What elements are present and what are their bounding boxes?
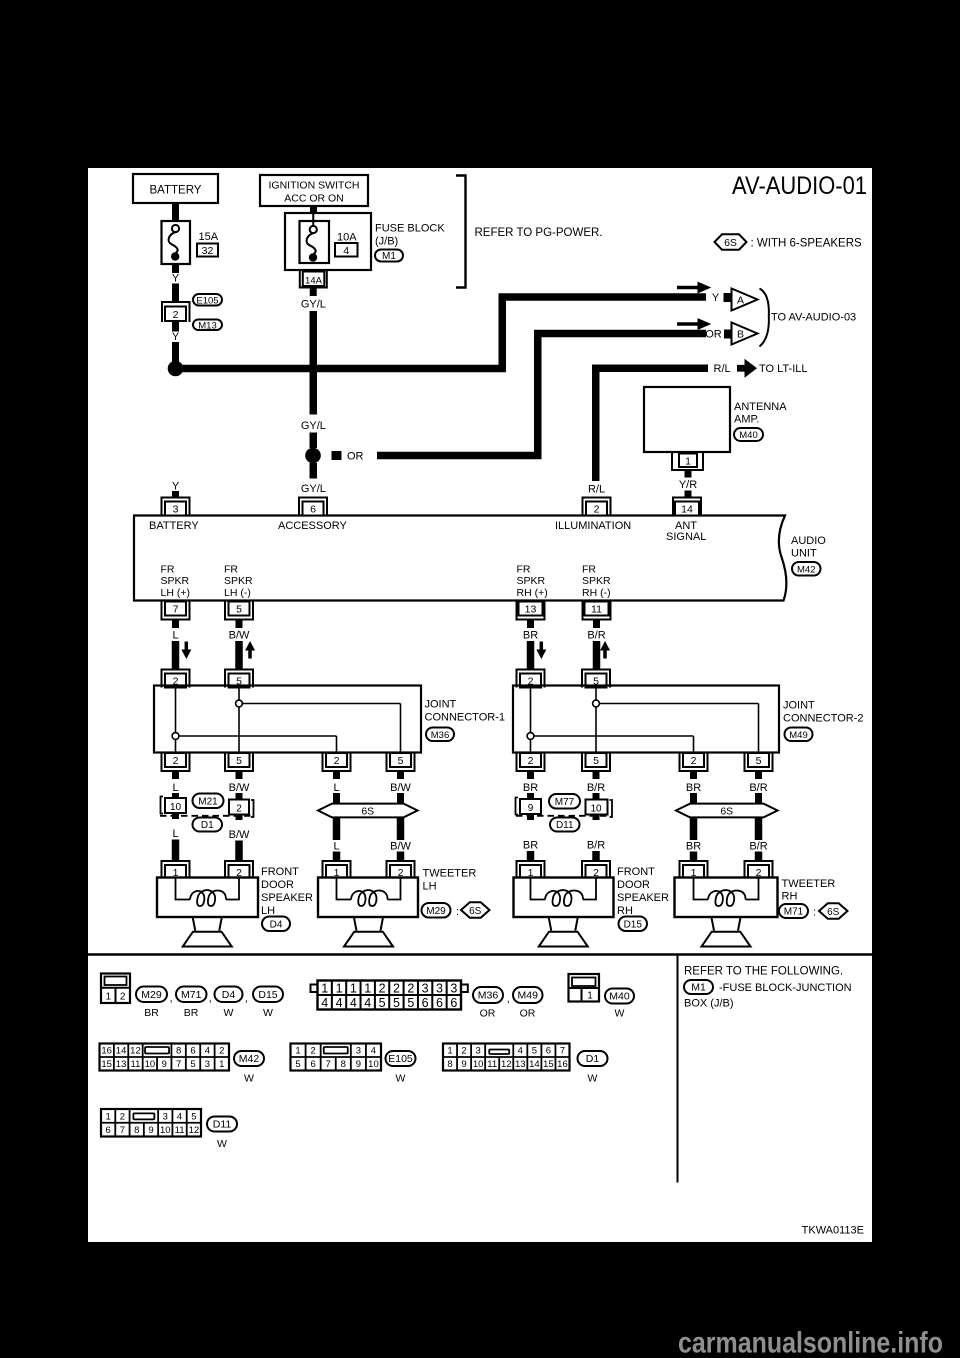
svg-text:4: 4 xyxy=(177,1111,182,1122)
svg-text:12: 12 xyxy=(189,1125,200,1136)
svg-text:5: 5 xyxy=(756,755,762,767)
svg-text:9: 9 xyxy=(148,1125,153,1136)
svg-text:RH (-): RH (-) xyxy=(582,587,611,599)
svg-text:W: W xyxy=(588,1073,598,1085)
svg-text:15A: 15A xyxy=(199,231,219,243)
svg-text:L: L xyxy=(333,782,339,794)
wire stub B/R xyxy=(755,771,762,779)
svg-text:: WITH 6-SPEAKERS: : WITH 6-SPEAKERS xyxy=(751,238,863,250)
wire Y stub to pin 3 xyxy=(172,491,179,498)
svg-text:6: 6 xyxy=(310,1059,315,1070)
svg-text:1: 1 xyxy=(295,1046,300,1057)
svg-text:9: 9 xyxy=(162,1059,167,1070)
svg-text:,: , xyxy=(507,993,510,1005)
svg-text:6: 6 xyxy=(546,1046,551,1057)
svg-text:AV-AUDIO-01: AV-AUDIO-01 xyxy=(732,172,867,200)
terminal triangle B to AV-AUDIO-03 xyxy=(732,323,758,345)
connector label M29 with 6S xyxy=(422,903,451,918)
wire B/W above 6S hexagon xyxy=(397,793,404,804)
svg-text:FR: FR xyxy=(224,564,238,576)
audio unit pin 3 xyxy=(162,498,190,516)
svg-text:L: L xyxy=(333,841,339,853)
wire L below 6S hexagon xyxy=(333,818,341,841)
svg-text:2: 2 xyxy=(236,804,242,815)
svg-text:5: 5 xyxy=(593,755,599,767)
svg-text:DOOR: DOOR xyxy=(617,879,650,891)
fuse 15A F32 xyxy=(162,221,191,264)
svg-text:BATTERY: BATTERY xyxy=(150,185,202,197)
svg-text:W: W xyxy=(263,1007,273,1019)
wire BR below 6S hexagon xyxy=(690,818,698,841)
svg-text:1: 1 xyxy=(350,982,357,996)
connector label M71 xyxy=(176,987,207,1003)
svg-text:Y: Y xyxy=(172,331,180,343)
connector label D15 xyxy=(619,917,648,932)
svg-text:W: W xyxy=(396,1073,406,1085)
svg-text:BR: BR xyxy=(686,782,701,794)
svg-text:1: 1 xyxy=(364,982,371,996)
svg-text:15: 15 xyxy=(101,1059,112,1070)
svg-text:,: , xyxy=(209,993,212,1005)
svg-text:(J/B): (J/B) xyxy=(375,236,398,248)
svg-text:BR: BR xyxy=(184,1007,199,1019)
wire Y to junction xyxy=(172,342,179,365)
wire stub into pin 10 xyxy=(593,793,600,800)
connector label D4 xyxy=(262,917,290,932)
svg-text:2: 2 xyxy=(691,755,697,767)
svg-text:12: 12 xyxy=(501,1059,512,1070)
wire L to tweeter pin xyxy=(333,852,341,863)
svg-text:10: 10 xyxy=(160,1125,171,1136)
node square B xyxy=(724,330,733,339)
svg-text:4: 4 xyxy=(364,996,371,1010)
svg-text:BOX (J/B): BOX (J/B) xyxy=(684,998,734,1010)
wire battery to fuse xyxy=(172,203,179,221)
wire GY/L down xyxy=(310,311,318,415)
wire fuse out xyxy=(172,264,179,273)
svg-text:B/R: B/R xyxy=(587,840,605,852)
connector label M36 xyxy=(426,728,454,742)
junction dot GY/L-OR xyxy=(305,448,321,464)
wire stub B/R xyxy=(593,771,600,779)
svg-text:16: 16 xyxy=(101,1046,112,1057)
svg-text:2: 2 xyxy=(594,504,600,516)
flow arrow down L xyxy=(181,642,191,660)
arrow to LT-ILL xyxy=(737,359,757,378)
wire below GY/L junction xyxy=(310,463,318,479)
audio unit pin 6 xyxy=(299,498,327,516)
svg-text:1: 1 xyxy=(447,1046,452,1057)
svg-text:D15: D15 xyxy=(624,919,643,930)
svg-text:FRONT: FRONT xyxy=(261,866,299,878)
wire B/W to speaker pin xyxy=(235,841,243,863)
svg-text:6: 6 xyxy=(310,504,316,516)
svg-text:IGNITION SWITCH: IGNITION SWITCH xyxy=(269,180,360,192)
connector label M1 xyxy=(375,250,403,262)
svg-text:ILLUMINATION: ILLUMINATION xyxy=(555,520,631,532)
joint connector-1 internal wires xyxy=(175,687,177,753)
wire stub below pin L xyxy=(172,620,179,629)
svg-text:REFER TO THE FOLLOWING.: REFER TO THE FOLLOWING. xyxy=(684,966,843,978)
connector label M77 xyxy=(549,794,580,809)
svg-text:12: 12 xyxy=(130,1046,141,1057)
svg-text:2: 2 xyxy=(334,755,340,767)
arrow marker Y bus xyxy=(677,286,698,290)
connector label M71 with 6S xyxy=(779,904,808,918)
svg-text:BATTERY: BATTERY xyxy=(149,520,199,532)
svg-text:B/W: B/W xyxy=(229,829,250,841)
grouping bracket PG-POWER xyxy=(456,176,466,288)
svg-text:6: 6 xyxy=(450,996,457,1010)
svg-text:3: 3 xyxy=(163,1111,168,1122)
svg-text:10: 10 xyxy=(473,1059,484,1070)
wire stub into pin 2 xyxy=(236,793,243,800)
svg-text:M42: M42 xyxy=(797,564,815,575)
svg-text:,: , xyxy=(245,993,248,1005)
svg-text:GY/L: GY/L xyxy=(301,420,326,432)
terminal triangle A to AV-AUDIO-03 xyxy=(732,289,758,311)
joint connector-2 box M49 xyxy=(513,686,779,753)
battery box B1 xyxy=(133,174,218,203)
connector label D1 xyxy=(193,818,223,832)
wire B/R to speaker pin xyxy=(592,851,600,862)
svg-text:W: W xyxy=(615,1008,625,1020)
svg-text:B/W: B/W xyxy=(390,782,411,794)
wire stub L xyxy=(333,771,340,779)
svg-text:10: 10 xyxy=(590,804,602,815)
connector label M36 xyxy=(473,987,503,1003)
svg-text:10: 10 xyxy=(170,802,182,813)
wire below pin 10 xyxy=(593,815,600,821)
joint connector-2 bottom pin 2 xyxy=(680,753,708,771)
svg-text::: : xyxy=(813,907,816,919)
svg-text:B/R: B/R xyxy=(587,630,605,642)
svg-text:M71: M71 xyxy=(181,989,202,1001)
wire ignition to fuse block xyxy=(310,206,317,213)
tweeter RH coil xyxy=(694,878,709,900)
svg-text:RH (+): RH (+) xyxy=(517,587,548,599)
svg-text:carmanualsonline.info: carmanualsonline.info xyxy=(678,1327,943,1358)
svg-text:D4: D4 xyxy=(222,989,236,1001)
svg-text:14A: 14A xyxy=(305,276,323,287)
connector label D15 xyxy=(253,987,283,1003)
svg-text:14: 14 xyxy=(116,1046,127,1057)
svg-text:2: 2 xyxy=(310,1046,315,1057)
front door speaker LH coil xyxy=(176,878,191,900)
svg-text:REFER TO PG-POWER.: REFER TO PG-POWER. xyxy=(475,227,603,239)
svg-text:E105: E105 xyxy=(388,1053,413,1065)
tweeter connector pin 1 RH xyxy=(680,861,708,879)
svg-text:16: 16 xyxy=(557,1059,568,1070)
svg-text:11: 11 xyxy=(131,1059,141,1070)
svg-text:FRONT: FRONT xyxy=(617,866,655,878)
svg-text:2: 2 xyxy=(528,755,534,767)
svg-text:6S: 6S xyxy=(724,237,737,249)
svg-text:6: 6 xyxy=(436,996,443,1010)
connector label M49 xyxy=(785,728,813,742)
svg-text:OR: OR xyxy=(705,329,722,341)
front door speaker RH box xyxy=(514,878,614,918)
svg-text:CONNECTOR-2: CONNECTOR-2 xyxy=(783,713,863,725)
svg-text:Y: Y xyxy=(172,481,180,493)
svg-text:9: 9 xyxy=(461,1059,466,1070)
joint connector-2 top pin 2 xyxy=(517,670,545,688)
svg-text:SPKR: SPKR xyxy=(224,575,253,587)
svg-text:OR: OR xyxy=(480,1008,496,1020)
svg-text:3: 3 xyxy=(475,1046,480,1057)
svg-text:M49: M49 xyxy=(518,990,539,1002)
svg-text:2: 2 xyxy=(120,1111,125,1122)
svg-text:L: L xyxy=(172,782,178,794)
ignition switch box xyxy=(260,175,368,206)
svg-text:B/R: B/R xyxy=(749,841,767,853)
audio unit pin 2 xyxy=(583,498,611,516)
connector face icon 2-pin xyxy=(101,974,130,1004)
antenna amp box xyxy=(644,387,730,452)
svg-text:R/L: R/L xyxy=(588,484,605,496)
svg-text:B/R: B/R xyxy=(587,782,605,794)
svg-text:6: 6 xyxy=(105,1125,110,1136)
svg-text:RH: RH xyxy=(782,891,798,903)
wire Y/R to pin 14 xyxy=(685,491,692,497)
audio unit pin 5 xyxy=(225,602,253,620)
connector label M13 xyxy=(193,320,222,331)
connector face icon D1 pin grid xyxy=(443,1044,570,1071)
wire stub into pin 9 xyxy=(527,793,534,799)
svg-text:M77: M77 xyxy=(555,797,575,808)
svg-text:B/W: B/W xyxy=(229,630,250,642)
fuse 10A F4 xyxy=(300,221,330,263)
front door speaker LH cone xyxy=(193,918,222,931)
brace to AV-AUDIO-03 xyxy=(760,289,769,347)
antenna pin 1 xyxy=(672,452,703,470)
svg-text:SPEAKER: SPEAKER xyxy=(261,892,313,904)
svg-text:4: 4 xyxy=(518,1046,523,1057)
svg-text:UNIT: UNIT xyxy=(791,548,817,560)
svg-text:4: 4 xyxy=(350,996,357,1010)
svg-text:6: 6 xyxy=(422,996,429,1010)
tweeter RH box xyxy=(675,878,778,918)
connector label M1 xyxy=(684,980,713,994)
svg-text:LH: LH xyxy=(423,881,437,893)
connector label E105 xyxy=(193,294,222,306)
fuse number box 32 xyxy=(197,244,218,257)
wire below pin 10 xyxy=(172,813,179,819)
svg-text:W: W xyxy=(224,1007,234,1019)
vertical separator line xyxy=(677,956,679,1183)
svg-text:1: 1 xyxy=(587,991,593,1002)
wire B/W to tweeter pin xyxy=(397,852,405,863)
svg-text:13: 13 xyxy=(116,1059,127,1070)
svg-text:LH (+): LH (+) xyxy=(161,587,190,599)
svg-text:11: 11 xyxy=(591,604,602,616)
svg-text:TWEETER: TWEETER xyxy=(782,878,836,890)
joint connector-1 bottom pin 2 xyxy=(162,753,190,771)
wire B/R to joint connector xyxy=(593,641,601,669)
svg-text:Y: Y xyxy=(712,292,720,304)
svg-text:BR: BR xyxy=(144,1007,159,1019)
svg-text:AUDIO: AUDIO xyxy=(791,535,826,547)
svg-text:RH: RH xyxy=(617,905,633,917)
svg-text:6S: 6S xyxy=(361,805,374,817)
svg-text:11: 11 xyxy=(487,1059,497,1070)
joint connector-2 top pin 5 xyxy=(582,670,610,688)
svg-text:2: 2 xyxy=(393,982,400,996)
wire stub BR xyxy=(690,771,697,779)
svg-text:M42: M42 xyxy=(239,1053,260,1065)
speaker connector pin 1 LH door xyxy=(162,861,190,879)
svg-text:BR: BR xyxy=(686,841,701,853)
svg-text:5: 5 xyxy=(236,755,242,767)
connector face icon D11 pin grid xyxy=(101,1109,201,1137)
svg-text:6: 6 xyxy=(190,1046,195,1057)
svg-text:A: A xyxy=(737,294,744,306)
svg-text:D11: D11 xyxy=(213,1119,232,1131)
svg-text:10: 10 xyxy=(368,1059,379,1070)
tweeter RH cone xyxy=(712,918,741,931)
svg-text:5: 5 xyxy=(191,1111,196,1122)
svg-text:6S: 6S xyxy=(720,805,733,817)
svg-text:M13: M13 xyxy=(198,320,216,331)
svg-text:8: 8 xyxy=(176,1046,181,1057)
svg-text:5: 5 xyxy=(379,996,386,1010)
wire bus R/L to LT-ILL xyxy=(596,368,708,481)
svg-text:5: 5 xyxy=(190,1059,195,1070)
svg-text:11: 11 xyxy=(175,1125,185,1136)
svg-text:4: 4 xyxy=(336,996,343,1010)
wire L to speaker pin xyxy=(172,840,180,863)
svg-text:GY/L: GY/L xyxy=(301,483,326,495)
svg-text:L: L xyxy=(172,828,178,840)
front door speaker LH box xyxy=(157,878,258,918)
svg-text:1: 1 xyxy=(105,1111,110,1122)
svg-text:D1: D1 xyxy=(201,820,214,831)
svg-text:1: 1 xyxy=(219,1059,224,1070)
node joint connector-1 b xyxy=(236,700,243,707)
wire stub B/W xyxy=(236,771,243,779)
wire B/W to joint connector xyxy=(235,641,243,669)
svg-text:-FUSE BLOCK-JUNCTION: -FUSE BLOCK-JUNCTION xyxy=(719,982,852,994)
wire L to joint connector xyxy=(172,641,180,669)
svg-text:32: 32 xyxy=(202,245,214,257)
svg-text:M29: M29 xyxy=(141,989,162,1001)
node joint connector-2 a xyxy=(527,733,534,740)
tweeter connector pin 2 RH xyxy=(745,861,773,879)
svg-text:3: 3 xyxy=(422,982,429,996)
svg-text:DOOR: DOOR xyxy=(261,879,294,891)
svg-text:2: 2 xyxy=(173,755,179,767)
inline connector pin 9 xyxy=(520,799,541,814)
svg-text:1: 1 xyxy=(336,982,343,996)
svg-text:10A: 10A xyxy=(337,232,357,244)
connector label M42 xyxy=(792,562,821,576)
joint connector-1 bottom pin 5 xyxy=(387,753,415,771)
svg-text:1: 1 xyxy=(106,992,112,1003)
junction dot battery bus xyxy=(168,361,184,377)
svg-text:D11: D11 xyxy=(556,820,574,831)
wire B/W below 6S hexagon xyxy=(397,818,405,841)
svg-text:ACC OR ON: ACC OR ON xyxy=(284,193,344,205)
svg-text:CONNECTOR-1: CONNECTOR-1 xyxy=(425,712,505,724)
svg-text:R/L: R/L xyxy=(714,363,731,375)
audio unit body xyxy=(134,516,786,601)
wire stub below pin BR xyxy=(527,620,534,629)
svg-text::: : xyxy=(456,906,459,918)
svg-text:OR: OR xyxy=(347,451,364,463)
svg-text:5: 5 xyxy=(532,1046,537,1057)
svg-text:9: 9 xyxy=(356,1059,361,1070)
connector label D4 xyxy=(215,987,243,1003)
svg-text:3: 3 xyxy=(436,982,443,996)
front door speaker RH cone xyxy=(549,918,578,931)
svg-text:M40: M40 xyxy=(609,991,630,1003)
svg-text:M1: M1 xyxy=(382,251,396,262)
wire stub below pin B/W xyxy=(236,620,243,629)
wire stub L xyxy=(172,771,179,779)
svg-text:10: 10 xyxy=(145,1059,156,1070)
inline connector pin 10 xyxy=(165,798,186,813)
svg-text:14: 14 xyxy=(681,504,693,516)
flow arrow up B/R xyxy=(600,641,610,659)
connector label M49 xyxy=(513,987,543,1003)
svg-text:3: 3 xyxy=(450,982,457,996)
wire stub into pin 10 xyxy=(172,793,179,798)
svg-text:8: 8 xyxy=(341,1059,346,1070)
wire stub BR xyxy=(527,771,534,779)
svg-text:7: 7 xyxy=(120,1125,125,1136)
speaker connector pin 2 LH door xyxy=(225,861,253,879)
svg-text:B/W: B/W xyxy=(390,841,411,853)
svg-text:1: 1 xyxy=(685,456,691,468)
svg-text:M1: M1 xyxy=(691,982,706,994)
node joint connector-1 a xyxy=(172,733,179,740)
audio unit pin 13 xyxy=(517,602,545,620)
svg-text:2: 2 xyxy=(379,982,386,996)
tweeter connector pin 1 LH xyxy=(323,861,351,879)
svg-text:2: 2 xyxy=(173,309,179,321)
connector face icon M36/M49 20-pin xyxy=(311,985,318,993)
svg-text:8: 8 xyxy=(134,1125,139,1136)
audio unit pin 7 xyxy=(162,602,190,620)
svg-text:L: L xyxy=(172,630,178,642)
svg-text:FR: FR xyxy=(582,564,596,576)
svg-text:1: 1 xyxy=(321,982,328,996)
svg-text:5: 5 xyxy=(236,604,242,616)
svg-text:7: 7 xyxy=(326,1059,331,1070)
wire B/R to tweeter pin xyxy=(755,852,763,863)
connector label M40 xyxy=(734,428,763,441)
svg-text:SPKR: SPKR xyxy=(582,575,611,587)
svg-text:FR: FR xyxy=(161,564,175,576)
inline connector pin 10 xyxy=(586,800,608,815)
wire B/R below 6S hexagon xyxy=(755,818,763,841)
svg-text:14: 14 xyxy=(529,1059,540,1070)
audio unit pin 14 xyxy=(673,498,701,516)
svg-text:4: 4 xyxy=(343,245,349,257)
option hexagon 6S right xyxy=(676,804,778,818)
horizontal separator line xyxy=(88,953,872,955)
svg-text:FR: FR xyxy=(517,564,531,576)
svg-text:15: 15 xyxy=(543,1059,554,1070)
svg-text:TKWA0113E: TKWA0113E xyxy=(802,1225,864,1237)
wire BR above 6S hexagon xyxy=(690,793,697,804)
svg-text:3: 3 xyxy=(205,1059,210,1070)
svg-text:B/W: B/W xyxy=(229,782,250,794)
wire bus Y to terminal A xyxy=(176,297,707,369)
wire B/R above 6S hexagon xyxy=(755,793,762,804)
svg-text:JOINT: JOINT xyxy=(783,700,815,712)
svg-text:JOINT: JOINT xyxy=(425,699,457,711)
